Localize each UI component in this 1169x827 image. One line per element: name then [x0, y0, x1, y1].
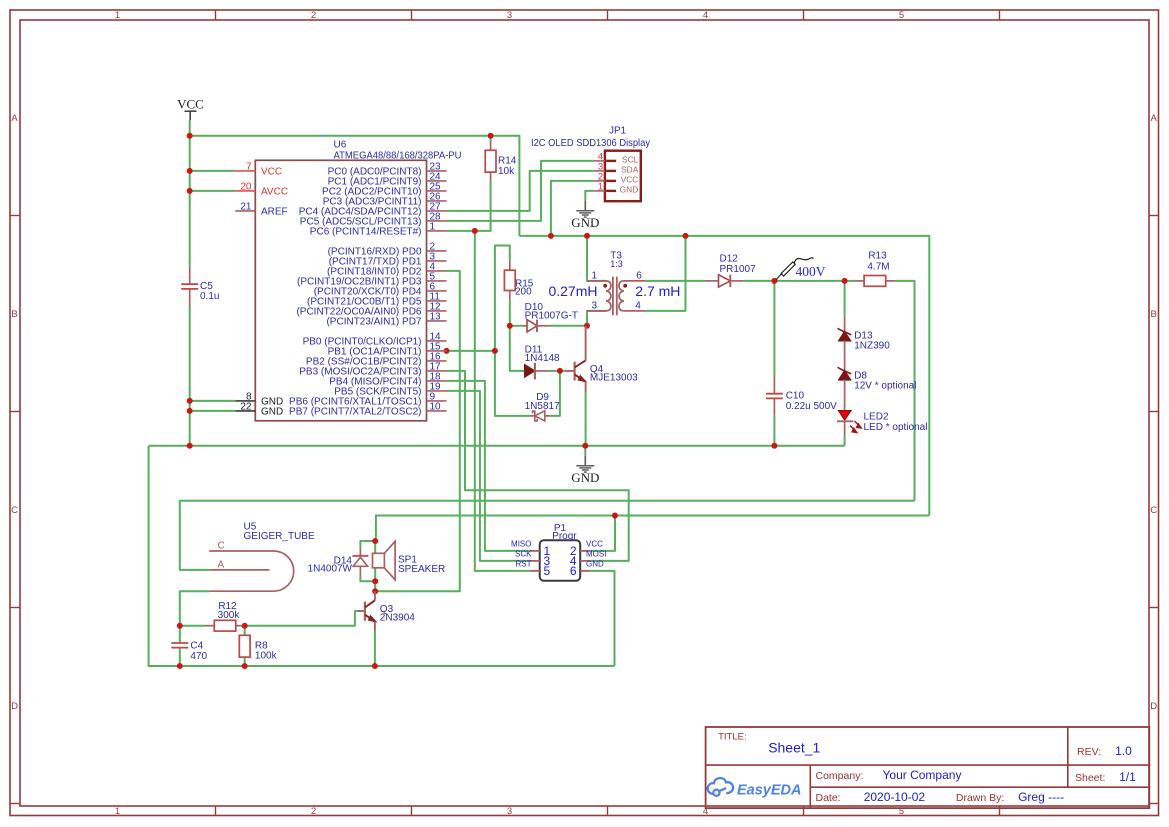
wire tube cathode to R12 node — [180, 591, 210, 626]
svg-text:10: 10 — [430, 401, 442, 412]
capacitor C10 — [773, 377, 775, 394]
transformer T3 secondary winding — [619, 281, 624, 311]
connector P1 body — [540, 540, 581, 581]
ground flag GND (mid) — [584, 456, 586, 466]
svg-text:1.0: 1.0 — [1115, 744, 1132, 758]
diode D14 1N4007W — [359, 548, 361, 556]
junction VCC flag — [187, 133, 193, 139]
wire D14 top branch — [360, 541, 375, 548]
junction C10 GND rail — [771, 443, 777, 449]
svg-text:R13: R13 — [868, 251, 887, 262]
wire D10 anode branch — [510, 325, 524, 327]
svg-text:3: 3 — [507, 806, 512, 817]
wire T3 pin4 to VCC rail — [645, 236, 686, 311]
svg-text:2N3904: 2N3904 — [380, 613, 415, 624]
svg-text:5: 5 — [544, 564, 551, 578]
diode LED2 (LED) — [839, 411, 851, 420]
U6 pin 26 PC3 (ADC3/PCINT11) — [427, 200, 447, 202]
svg-text:SCK: SCK — [515, 549, 532, 558]
svg-text:GND: GND — [586, 559, 604, 568]
svg-text:Progr: Progr — [552, 531, 577, 542]
svg-text:SCL: SCL — [622, 155, 639, 165]
diode D10 PR1007G-T — [524, 325, 528, 327]
IC U6 body — [255, 160, 426, 421]
svg-text:D: D — [11, 701, 18, 712]
svg-text:ATMEGA48/88/168/328PA-PU: ATMEGA48/88/168/328PA-PU — [334, 150, 462, 161]
U6 pin 18 PB4 (MISO/PCINT4) — [427, 380, 447, 382]
wire C4 top — [179, 626, 181, 643]
junction pin8 — [187, 398, 193, 404]
U6 pin 27 PC4 (ADC4/SDA/PCINT12) — [427, 210, 447, 212]
svg-text:1: 1 — [115, 10, 120, 21]
svg-text:1: 1 — [598, 182, 603, 193]
junction R12 C4 — [177, 623, 183, 629]
junction R12 R8 — [242, 623, 248, 629]
svg-text:D12: D12 — [720, 253, 739, 264]
svg-text:D: D — [1150, 701, 1157, 712]
transistor Q4 MJE13003 — [565, 370, 574, 372]
wire PB5 SCK — [447, 391, 530, 561]
svg-text:GND: GND — [261, 406, 283, 417]
transformer T3 pin 6 — [624, 280, 645, 282]
svg-text:A: A — [11, 113, 18, 124]
svg-text:RST: RST — [516, 559, 532, 568]
wire P1 VCC branch — [590, 516, 615, 551]
svg-text:Company:: Company: — [816, 770, 864, 782]
P1 pin 5 RST — [530, 570, 540, 572]
wire PB1 to R15 top — [447, 350, 495, 352]
P1 pin 4 MOSI — [580, 560, 590, 562]
svg-text:5: 5 — [899, 10, 904, 21]
junction PB1 pin15 stub — [444, 348, 450, 354]
wire R14 bottom to RESET — [447, 182, 491, 231]
wire SCL pin28 to JP1 — [447, 161, 594, 221]
U6 pin 23 PC0 (ADC0/PCINT8) — [427, 170, 447, 172]
wire 400V tube line — [180, 501, 915, 570]
svg-text:1: 1 — [592, 271, 598, 282]
svg-text:7: 7 — [246, 161, 252, 172]
wire Q4 emitter to GND rail — [585, 392, 587, 446]
svg-text:Greg ----: Greg ---- — [1018, 790, 1064, 804]
wire D11 cathode to Q4 base — [550, 370, 566, 372]
U6 pin 28 PC5 (ADC5/SCL/PCINT13) — [427, 220, 447, 222]
frame ticks left — [10, 215, 20, 217]
JP1 pin 4 SCL — [594, 160, 605, 162]
junction R8 bottom rail — [242, 663, 248, 669]
svg-text:VCC: VCC — [177, 97, 204, 112]
wire R12 right to Q3 base — [243, 611, 358, 626]
svg-text:1NZ390: 1NZ390 — [854, 341, 890, 352]
U6 pin 1 PC6 (PCINT14/RESET#) — [427, 230, 447, 232]
svg-text:100k: 100k — [255, 651, 278, 662]
resistor R15 — [509, 261, 511, 270]
svg-text:LED * optional: LED * optional — [864, 422, 928, 433]
diode D8 12V (zener) — [838, 367, 852, 374]
junction RESET branch — [472, 228, 478, 234]
svg-text:MOSI: MOSI — [586, 549, 606, 558]
svg-text:0.27mH: 0.27mH — [548, 283, 597, 299]
svg-text:JP1: JP1 — [609, 126, 627, 137]
wire LED2 bottom to GND rail — [844, 435, 846, 446]
wire T3 pin6 to D12 — [645, 280, 705, 282]
frame ticks bottom — [215, 806, 217, 816]
svg-text:2: 2 — [311, 806, 316, 817]
wire AVCC pin20 — [190, 190, 236, 192]
svg-text:(PCINT23/AIN1) PD7: (PCINT23/AIN1) PD7 — [326, 316, 421, 327]
svg-text:13: 13 — [430, 311, 442, 322]
U6 pin 17 PB3 (MOSI/OC2A/PCINT3) — [427, 370, 447, 372]
svg-text:B: B — [11, 309, 17, 320]
svg-text:A: A — [218, 560, 225, 571]
svg-text:MISO: MISO — [511, 539, 531, 548]
logo EasyEDA — [708, 778, 733, 794]
wire C10 bottom — [773, 415, 775, 445]
svg-text:2: 2 — [311, 10, 316, 21]
junction C4 bottom rail — [177, 663, 183, 669]
U6 pin 22 GND — [235, 410, 255, 412]
wire P1 GND to bottom rail — [590, 571, 614, 666]
svg-text:4: 4 — [635, 301, 641, 312]
wire T3 pin1 to VCC rail — [587, 236, 606, 281]
svg-text:GND: GND — [620, 185, 639, 195]
svg-text:2.7 mH: 2.7 mH — [635, 283, 680, 299]
svg-text:GND: GND — [571, 215, 599, 230]
svg-text:VCC: VCC — [261, 166, 282, 177]
wire PB3 MOSI — [447, 371, 629, 561]
svg-text:400V: 400V — [796, 264, 826, 279]
svg-text:PR1007: PR1007 — [720, 264, 757, 275]
svg-text:20: 20 — [240, 181, 252, 192]
wire VCC vertical left — [189, 120, 191, 266]
frame ticks top — [215, 10, 217, 20]
svg-text:Your Company: Your Company — [883, 768, 962, 782]
svg-text:22: 22 — [240, 401, 252, 412]
title block border — [706, 727, 1150, 808]
wire R15 bottom — [509, 300, 511, 326]
JP1 pin 2 VCC — [594, 180, 605, 182]
svg-text:1: 1 — [430, 221, 436, 232]
junction speaker bottom — [372, 578, 378, 584]
title block dividers — [706, 764, 1150, 766]
svg-text:C: C — [1150, 505, 1157, 516]
junction 400V C10 — [771, 278, 777, 284]
svg-text:U6: U6 — [334, 140, 347, 151]
junction PB1 R15 — [492, 348, 498, 354]
junction D11 Q4 base — [557, 368, 563, 374]
resistor R12 — [205, 625, 214, 627]
wire D10 cathode to Q4 collector node — [550, 325, 587, 327]
U6 pin 12 (PCINT22/OC0A/AIN0) PD6 — [427, 310, 447, 312]
wire R15 to D11 anode — [510, 326, 525, 371]
U6 pin 5 (PCINT19/OC2B/INT1) PD3 — [427, 280, 447, 282]
wire R13 right down to tube line — [895, 281, 915, 501]
capacitor C5 — [189, 266, 191, 284]
svg-text:1/1: 1/1 — [1119, 770, 1136, 784]
svg-text:C: C — [218, 541, 225, 552]
U6 pin 6 (PCINT20/XCK/T0) PD4 — [427, 290, 447, 292]
svg-text:VCC: VCC — [621, 175, 639, 185]
probe 400V — [776, 273, 782, 280]
svg-text:Sheet_1: Sheet_1 — [768, 740, 820, 756]
wire SDA pin27 to JP1 — [447, 171, 594, 211]
wire C10 top — [773, 281, 775, 377]
wire R8 top — [244, 626, 246, 636]
U6 pin 14 PB0 (PCINT0/CLKO/ICP1) — [427, 340, 447, 342]
U6 pin 15 PB1 (OC1A/PCINT1) — [427, 350, 447, 352]
wire PD2 INT0 line — [375, 271, 460, 591]
U6 pin 10 PB7 (PCINT7/XTAL2/TOSC2) — [427, 410, 447, 412]
svg-text:SPEAKER: SPEAKER — [398, 564, 445, 575]
resistor R8 — [239, 635, 250, 657]
transformer T3 polarity dots — [603, 284, 607, 288]
junction Q4 emitter GND — [582, 443, 588, 449]
wire speaker bottom node — [374, 568, 376, 592]
wire D12 to 400V node — [743, 280, 844, 282]
svg-text:0.22u 500V: 0.22u 500V — [786, 401, 837, 412]
JP1 pin 3 SDA — [594, 170, 605, 172]
svg-text:AVCC: AVCC — [261, 186, 288, 197]
junction P1 VCC line — [612, 513, 618, 519]
U6 pin 24 PC1 (ADC1/PCINT9) — [427, 180, 447, 182]
svg-text:Sheet:: Sheet: — [1075, 772, 1105, 784]
svg-text:12V * optional: 12V * optional — [854, 381, 916, 392]
svg-text:AREF: AREF — [261, 206, 288, 217]
svg-text:GND: GND — [571, 470, 599, 485]
resistor R13 — [855, 280, 864, 282]
wire GND rail left drop — [149, 446, 180, 666]
transistor Q3 2N3904 — [358, 610, 364, 612]
transformer T3 pin 1 — [587, 280, 606, 282]
svg-text:PC6 (PCINT14/RESET#): PC6 (PCINT14/RESET#) — [310, 226, 422, 237]
svg-text:300k: 300k — [218, 610, 241, 621]
svg-text:PB7 (PCINT7/XTAL2/TOSC2): PB7 (PCINT7/XTAL2/TOSC2) — [289, 406, 421, 417]
U6 pin 11 (PCINT21/OC0B/T1) PD5 — [427, 300, 447, 302]
svg-text:C4: C4 — [190, 640, 203, 651]
svg-text:0.1u: 0.1u — [200, 291, 219, 302]
diode D11 1N4148 — [525, 370, 527, 372]
wire D9 cathode link — [550, 371, 560, 416]
U6 pin 4 (PCINT18/INT0) PD2 — [427, 270, 447, 272]
svg-text:I2C OLED SDD1306 Display: I2C OLED SDD1306 Display — [531, 138, 650, 149]
wire JP1 GND pin1 — [585, 191, 593, 201]
junction C5 GND rail — [187, 443, 193, 449]
svg-text:6: 6 — [570, 564, 577, 578]
junction D10 T3 pin3 — [584, 323, 590, 329]
svg-text:EasyEDA: EasyEDA — [737, 782, 801, 798]
svg-text:TITLE:: TITLE: — [718, 732, 747, 743]
svg-text:21: 21 — [240, 201, 252, 212]
svg-text:B: B — [1151, 309, 1157, 320]
svg-text:VCC: VCC — [586, 539, 603, 548]
svg-text:C: C — [11, 505, 18, 516]
wire VCC pin7 — [190, 170, 236, 172]
U6 pin 9 PB6 (PCINT6/XTAL1/TOSC1) — [427, 400, 447, 402]
U6 pin 19 PB5 (SCK/PCINT5) — [427, 390, 447, 392]
wire R8 bottom — [244, 657, 246, 666]
junction pin22 — [187, 408, 193, 414]
P1 pin 2 VCC — [580, 550, 590, 552]
junction T3 pin1 rail — [584, 233, 590, 239]
P1 pin 1 MISO — [530, 550, 540, 552]
connector JP1 body — [605, 151, 641, 202]
wire C4 bottom — [179, 648, 181, 666]
wire RESET to P1 RST — [475, 231, 530, 571]
svg-text:6: 6 — [636, 271, 642, 282]
U6 pin 25 PC2 (ADC2/PCINT10) — [427, 190, 447, 192]
JP1 pin 1 GND — [594, 190, 605, 192]
P1 pin 3 SCK — [530, 560, 540, 562]
U6 pin 8 GND — [235, 400, 255, 402]
frame ticks right — [1149, 215, 1159, 217]
svg-text:10k: 10k — [498, 166, 515, 177]
tube U5 anode line — [209, 569, 269, 571]
wire GND pin22 — [190, 410, 236, 412]
svg-text:GEIGER_TUBE: GEIGER_TUBE — [244, 531, 315, 542]
junction JP1 VCC rail — [548, 233, 554, 239]
U6 pin 7 VCC — [235, 170, 255, 172]
wire R15 top loop — [495, 246, 530, 416]
svg-text:2020-10-02: 2020-10-02 — [864, 790, 926, 804]
wire VCC to P1 and speaker — [376, 516, 929, 542]
svg-text:470: 470 — [190, 651, 207, 662]
wire JP1 VCC pin2 — [551, 181, 594, 236]
wire R14 top — [490, 136, 492, 142]
wire R13 left — [845, 280, 855, 282]
wire GND rail — [149, 445, 845, 447]
svg-text:3: 3 — [507, 10, 512, 21]
junction 400V D13 — [842, 278, 848, 284]
wire Q3 collector node — [374, 591, 376, 594]
resistor R14 — [490, 142, 492, 151]
transformer T3 core — [612, 277, 614, 316]
svg-text:4.7M: 4.7M — [867, 261, 889, 272]
svg-text:200: 200 — [515, 287, 532, 298]
U6 pin 3 (PCINT17/TXD) PD1 — [427, 260, 447, 262]
wire speaker top node — [374, 541, 376, 553]
svg-text:Date:: Date: — [816, 792, 841, 804]
U6 pin 13 (PCINT23/AIN1) PD7 — [427, 320, 447, 322]
wire D14 bottom branch — [360, 575, 375, 581]
wire T3 pin3 to Q4 collector — [587, 311, 606, 326]
diode D9 1N5817 (schottky) — [530, 415, 535, 417]
junction R14 top — [488, 133, 494, 139]
wire GND flag mid stub — [584, 446, 586, 456]
wire bottom GND rail — [149, 665, 615, 667]
U6 pin 20 AVCC — [235, 190, 255, 192]
wire R12 left — [180, 625, 206, 627]
junction speaker top — [372, 538, 378, 544]
wire C5 bottom to GND rail — [189, 306, 191, 445]
svg-text:4: 4 — [703, 10, 708, 21]
diode D13 1NZ390 (zener) — [844, 317, 846, 331]
wire D13 top — [844, 281, 846, 317]
svg-text:1N4007W: 1N4007W — [308, 564, 353, 575]
wire Q3 emitter to bottom rail — [374, 630, 376, 666]
junction Q3 emitter rail — [372, 663, 378, 669]
svg-text:Drawn By:: Drawn By: — [956, 792, 1004, 804]
ground flag GND (under JP1) — [584, 201, 586, 211]
svg-text:1N5817: 1N5817 — [525, 401, 560, 412]
svg-text:3: 3 — [592, 301, 598, 312]
U6 pin 21 AREF — [235, 210, 255, 212]
wire GND pin8 — [190, 400, 236, 402]
svg-text:SDA: SDA — [621, 165, 639, 175]
junction pin20 — [187, 188, 193, 194]
junction R15 D10 — [507, 323, 513, 329]
junction pin7 — [187, 168, 193, 174]
wire PB4 MISO — [447, 381, 530, 551]
svg-text:REV:: REV: — [1077, 746, 1101, 758]
capacitor C4 — [171, 642, 188, 644]
U6 pin 2 (PCINT16/RXD) PD0 — [427, 250, 447, 252]
wire VCC rail mid — [519, 236, 929, 516]
svg-text:1N4148: 1N4148 — [525, 353, 560, 364]
U6 pin 16 PB2 (SS#/OC1B/PCINT2) — [427, 360, 447, 362]
transformer T3 primary winding — [606, 281, 611, 311]
P1 pin 6 GND — [580, 570, 590, 572]
svg-text:PR1007G-T: PR1007G-T — [525, 311, 578, 322]
transformer T3 pin 4 — [624, 310, 645, 312]
transformer T3 pin 3 — [587, 310, 606, 312]
speaker SP1 — [373, 553, 385, 568]
svg-text:1: 1 — [115, 806, 120, 817]
svg-text:A: A — [1151, 113, 1158, 124]
svg-text:1:3: 1:3 — [610, 259, 623, 269]
wire VCC top rail — [190, 136, 520, 236]
diode D12 PR1007 — [705, 280, 719, 282]
junction T3 pin4 rail — [683, 233, 689, 239]
junction Q3 collector INT0 — [372, 588, 378, 594]
svg-text:MJE13003: MJE13003 — [590, 373, 638, 384]
tube U5 GEIGER_TUBE body — [209, 551, 293, 591]
